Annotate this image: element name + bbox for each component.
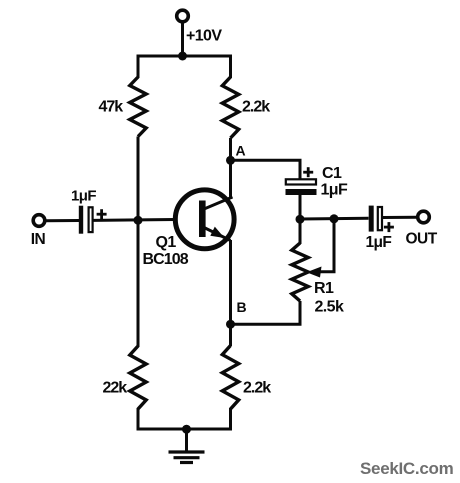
svg-text:SeekIC.com: SeekIC.com [360,459,454,478]
svg-text:B: B [237,299,247,315]
svg-text:2.2k: 2.2k [243,380,271,397]
svg-text:1μF: 1μF [366,234,392,251]
svg-text:R1: R1 [314,280,334,297]
svg-text:Q1: Q1 [156,234,177,251]
svg-text:2.2k: 2.2k [242,99,270,116]
svg-text:2.5k: 2.5k [315,299,344,316]
svg-text:IN: IN [31,231,46,248]
svg-text:C1: C1 [322,165,342,182]
svg-text:47k: 47k [99,99,124,116]
svg-text:1μF: 1μF [71,188,96,205]
svg-text:+10V: +10V [186,28,222,45]
svg-text:OUT: OUT [406,231,438,248]
svg-text:22k: 22k [103,380,128,397]
svg-text:1μF: 1μF [321,182,348,199]
svg-text:A: A [236,143,246,159]
svg-text:BC108: BC108 [143,251,189,268]
